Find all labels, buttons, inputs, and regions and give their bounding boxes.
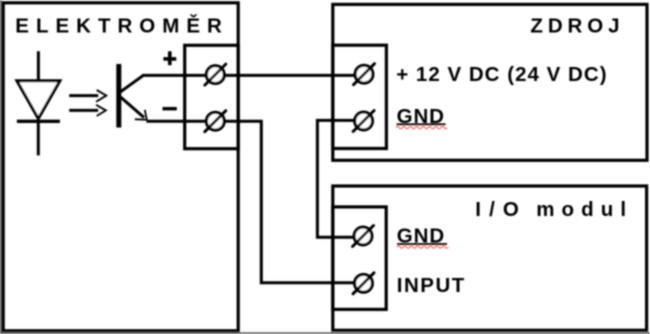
svg-text:INPUT: INPUT — [397, 274, 466, 297]
svg-text:ZDROJ: ZDROJ — [530, 15, 624, 38]
svg-text:modul: modul — [536, 198, 633, 221]
svg-text:ELEKTROMĚR: ELEKTROMĚR — [15, 14, 229, 38]
svg-text:I/O: I/O — [475, 198, 527, 221]
svg-text:+ 12 V DC (24 V DC): + 12 V DC (24 V DC) — [396, 63, 607, 86]
